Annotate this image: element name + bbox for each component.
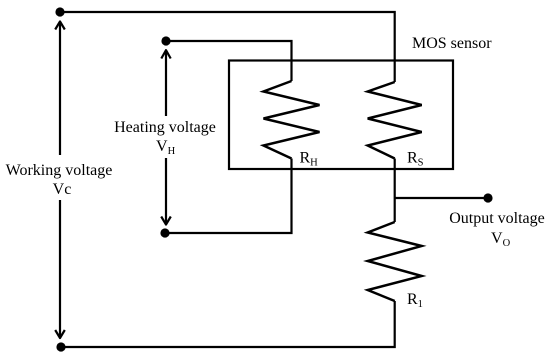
arrowhead: working voltage down [55, 330, 65, 338]
MOS sensor box [229, 61, 453, 170]
svg-text:VO: VO [491, 230, 511, 249]
svg-text:RS: RS [407, 150, 424, 169]
wire: heating top rail from VH node to RH top [166, 41, 292, 81]
wire: RS bottom lead down to R1 top [394, 159, 396, 223]
wire: R1 bottom lead and bottom rail to Vc - node [61, 301, 395, 347]
wire: top rail from Vc node to Rs top [60, 12, 395, 82]
arrowhead: heating voltage up [161, 50, 170, 58]
wire: heating voltage arrow shaft upper [165, 51, 167, 116]
wire: RH bottom lead down to heating bottom rail [165, 159, 292, 234]
resistor RS [368, 82, 422, 159]
svg-text:Heating voltage: Heating voltage [114, 119, 216, 136]
node: VH negative terminal [160, 228, 169, 237]
svg-text:MOS sensor: MOS sensor [412, 35, 492, 52]
wire: working voltage arrow shaft lower [59, 200, 61, 337]
node: Vc positive terminal [55, 7, 64, 16]
arrowhead: heating voltage down [161, 217, 171, 225]
svg-text:RH: RH [300, 150, 319, 169]
resistor RH [264, 81, 320, 159]
node: output terminal Vo [483, 193, 492, 202]
svg-text:VH: VH [156, 138, 176, 157]
wire: output tap to Vo terminal [395, 197, 488, 199]
wire: heating voltage arrow shaft lower [165, 158, 167, 224]
svg-text:R1: R1 [407, 291, 423, 310]
wire: working voltage arrow shaft upper [59, 23, 61, 156]
arrowhead: working voltage up [55, 22, 65, 30]
node: VH positive terminal [161, 36, 170, 45]
svg-text:Working voltage: Working voltage [6, 162, 113, 179]
svg-text:Output voltage: Output voltage [449, 210, 545, 227]
node: Vc negative terminal [56, 342, 65, 351]
svg-text:Vc: Vc [53, 181, 72, 198]
resistor R1 [368, 222, 422, 301]
